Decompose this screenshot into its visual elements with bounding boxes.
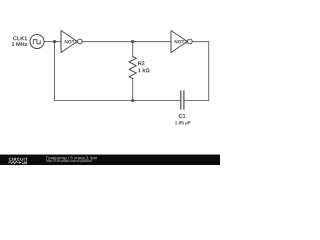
label CLK1 value 1 MHz [12,42,27,46]
node B junction dot (R2 top) [131,40,134,43]
inverter gate NOT2 [171,31,192,53]
label NOT1 [65,40,77,43]
label C1 value 1.05 µF [175,121,190,125]
logo word LAB [22,161,27,164]
label R2 name [138,61,144,65]
wire R2 bottom lead [132,79,134,101]
logo resistor squiggle [8,161,19,163]
wire R2 top lead [132,42,134,57]
clock source CLK1 [30,35,44,49]
wire bottom rail right segment [185,100,209,102]
logo arrow [19,162,21,164]
logo word CIRCUIT [9,158,28,161]
label C1 name [179,114,186,118]
node C junction dot (R2 bottom) [131,99,134,102]
wire bottom rail left segment [55,100,181,102]
label R2 value 1 kΩ [138,68,149,72]
wire clock to NOT1 input [44,41,61,43]
resistor R2 [129,57,136,79]
watermark bar [0,155,220,165]
wire node A down left rail [54,42,56,101]
caption line 2 [46,159,92,163]
wire NOT2 output to right rail [192,42,208,101]
label NOT2 [175,40,187,43]
wire NOT1 output to NOT2 input [82,41,171,43]
label CLK1 name [13,36,27,40]
capacitor C1 [181,91,184,110]
inverter gate NOT1 [61,31,82,53]
caption line 1 [46,156,96,160]
node A junction dot [53,40,56,43]
